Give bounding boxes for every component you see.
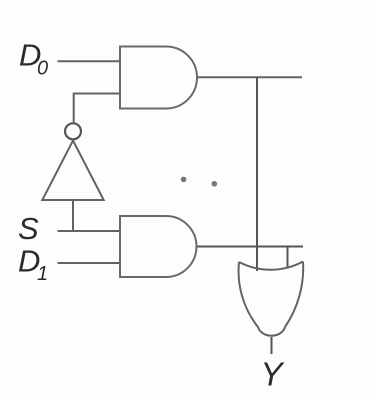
wire S to AND gate U2: [58, 230, 121, 232]
wire inverter output to U1 second input: [74, 94, 120, 124]
OR gate U3: [239, 262, 304, 336]
wire D0 to AND gate U1: [58, 60, 121, 62]
wire U1 output: [197, 76, 302, 78]
svg-text:Y: Y: [261, 356, 285, 393]
label D0: [19, 38, 48, 80]
wire OR output stub: [271, 337, 273, 354]
inverter bubble: [65, 123, 81, 139]
wire U2 output: [197, 246, 303, 248]
AND gate U2: [120, 216, 196, 277]
svg-text:1: 1: [37, 263, 48, 285]
inverter triangle: [42, 141, 103, 201]
dots ellipsis: [181, 177, 217, 187]
wire junction vertical to OR gate left input: [256, 77, 258, 271]
wire D1 to AND gate U2: [58, 262, 121, 264]
AND gate U1: [120, 47, 197, 109]
wire stub to OR gate right input: [287, 247, 289, 269]
label D1: [18, 244, 48, 286]
svg-text:0: 0: [37, 58, 48, 80]
svg-text:S: S: [18, 211, 39, 246]
wire inverter input stub: [72, 200, 74, 232]
